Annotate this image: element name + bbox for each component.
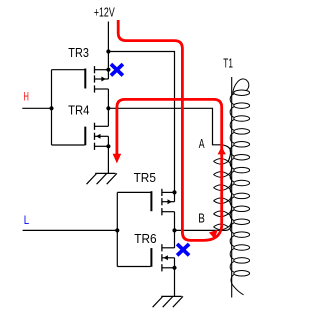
svg-text:+12V: +12V — [94, 4, 115, 19]
svg-text:TR5: TR5 — [134, 170, 156, 185]
svg-text:B: B — [198, 210, 205, 225]
svg-text:TR3: TR3 — [68, 45, 89, 60]
svg-text:L: L — [24, 213, 30, 227]
svg-text:H: H — [24, 90, 29, 104]
svg-text:TR6: TR6 — [134, 231, 156, 246]
svg-text:TR4: TR4 — [68, 103, 89, 118]
svg-text:A: A — [199, 136, 205, 151]
svg-text:T1: T1 — [223, 56, 233, 71]
